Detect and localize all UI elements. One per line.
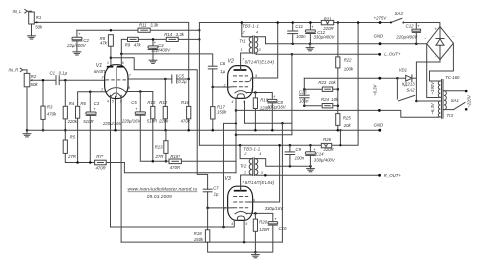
node C3 top — [89, 91, 92, 94]
V3 g1 lead — [228, 207, 234, 209]
tube V1 6N3P envelope — [105, 65, 128, 99]
connector IN_R — [20, 68, 23, 71]
svg-text:C14: C14 — [316, 152, 324, 157]
capacitor C5 coupling — [171, 75, 173, 83]
wire V3 g2 to bottom rail — [253, 145, 280, 202]
resistor R18 — [205, 230, 209, 242]
wire V3 pin5 stub — [243, 221, 245, 243]
svg-text:VD1: VD1 — [399, 67, 408, 72]
svg-text:100n: 100n — [299, 99, 309, 104]
svg-text:+: + — [434, 27, 437, 32]
switch SA3 — [391, 18, 402, 22]
svg-text:4: 4 — [107, 100, 109, 104]
svg-text:R7*: R7* — [96, 154, 103, 159]
svg-text:150k: 150k — [217, 110, 227, 115]
wire L_OUT heater reference vertical — [291, 54, 293, 134]
ground bus — [27, 129, 380, 131]
svg-text:1: 1 — [244, 171, 246, 175]
svg-text:470R: 470R — [96, 165, 106, 170]
svg-text:C12: C12 — [406, 24, 414, 29]
wire R19 bottom to ground bus — [254, 109, 256, 131]
wire R22 stub — [337, 23, 339, 57]
svg-text:220k: 220k — [67, 119, 78, 124]
svg-text:2: 2 — [100, 87, 103, 91]
resistor R4 — [63, 106, 67, 119]
wire V1 heater mid to ground bus — [115, 96, 117, 130]
svg-text:2: 2 — [223, 206, 226, 210]
wire C8 bottom to ground bus — [271, 103, 273, 130]
V3 g2 lead — [248, 201, 252, 203]
svg-text:C5: C5 — [178, 73, 184, 78]
resistor R6 — [76, 106, 80, 118]
wire heater drop right — [281, 123, 283, 242]
potentiometer R1 — [29, 12, 35, 24]
svg-text:220R: 220R — [323, 147, 334, 152]
svg-text:R10: R10 — [147, 100, 155, 105]
wire R18 bottom on heater line — [207, 241, 209, 243]
resistor R15* — [169, 159, 181, 164]
resistor R23 — [322, 87, 332, 91]
wire C10 bottom and bottom ground line — [208, 225, 273, 252]
wire R20 stub — [254, 213, 256, 219]
capacitor C3 electrolytic — [86, 112, 96, 114]
connector IN_L — [25, 9, 28, 13]
wire heater bottom line — [121, 241, 282, 243]
wire ground bus to bottom rail stub — [339, 130, 341, 145]
wire C7 to V3 grid — [208, 192, 228, 208]
svg-text:220R: 220R — [322, 26, 333, 31]
wire R13 from ground bus — [165, 130, 167, 141]
svg-text:4: 4 — [259, 152, 261, 156]
wire cathode1 line — [78, 92, 106, 107]
capacitor C1 — [55, 76, 57, 85]
capacitor C7 coupling to V3 — [203, 188, 212, 190]
wire R4 vertical — [64, 80, 66, 106]
wire heater line H1 to transformer — [236, 110, 437, 117]
svg-text:470k: 470k — [181, 118, 191, 123]
ground C2 — [73, 51, 81, 53]
wire V1 heater B down — [120, 95, 122, 242]
svg-text:09.03.2009: 09.03.2009 — [147, 194, 172, 199]
wire R12 drop — [164, 79, 166, 106]
svg-text:50k: 50k — [31, 82, 39, 87]
svg-text:100k: 100k — [344, 66, 354, 71]
capacitor C2 electrolytic — [72, 37, 82, 39]
V1 heater — [111, 93, 122, 97]
svg-text:6Н3П: 6Н3П — [94, 69, 106, 74]
resistor R24 — [322, 104, 333, 108]
wire grid1 line from R2 wiper through C1 — [34, 79, 57, 81]
node R4/R5 ground — [64, 129, 67, 132]
switch SA1 — [444, 109, 454, 111]
node heater jog — [235, 122, 237, 124]
wire C3 vertical — [89, 92, 91, 112]
wire hum line left channel — [181, 160, 236, 162]
svg-text:120R: 120R — [259, 227, 269, 232]
bridge rectifier — [427, 27, 454, 60]
wire R6 bottom crossing bus to bias line — [77, 118, 79, 162]
svg-text:R21: R21 — [324, 16, 332, 21]
svg-text:4: 4 — [232, 100, 234, 104]
ground C4 — [149, 59, 157, 61]
V3 grid rows — [233, 196, 248, 207]
svg-text:R11 3,3k: R11 3,3k — [139, 23, 159, 28]
svg-text:9: 9 — [255, 74, 257, 78]
svg-text:SA1: SA1 — [451, 98, 460, 103]
nodes on bottom rail — [239, 144, 242, 147]
ground under C12 — [309, 44, 311, 48]
V3 anode plate — [234, 190, 247, 192]
wire V2 g2 up to rail — [253, 23, 278, 79]
svg-text:R4: R4 — [69, 101, 75, 106]
wire R20 bottom to ground — [254, 231, 256, 252]
wire Tr2 pin1 to V3 anode — [241, 175, 251, 191]
svg-text:R9 47k: R9 47k — [125, 42, 142, 47]
node anode2 — [120, 53, 123, 56]
resistor R25 — [336, 114, 340, 126]
svg-text:КД213: КД213 — [402, 81, 415, 86]
wire Tr2 pin2 to rail — [240, 145, 251, 158]
svg-text:4: 4 — [256, 30, 258, 34]
wire anode2 to coupling C6 — [121, 54, 212, 66]
winding 190V — [438, 81, 440, 97]
node R11 line junction — [198, 29, 200, 31]
wire Tr1 pin4 to GND rail — [256, 37, 265, 44]
ground R1 — [28, 35, 36, 37]
wire nfb +6.3 line — [304, 77, 397, 79]
capacitor C13 — [300, 94, 310, 96]
svg-text:1µ: 1µ — [220, 69, 225, 74]
wire R3 vertical — [42, 80, 44, 106]
wire R22 down through R23 R24 to R25 — [337, 68, 339, 114]
svg-text:3: 3 — [251, 87, 253, 91]
svg-text:R24 10k: R24 10k — [321, 97, 339, 102]
wire R5 bottom to bias line — [65, 153, 94, 162]
winding 220V primary — [444, 91, 446, 110]
wire bottom channel supply rail — [199, 23, 358, 146]
svg-text:3: 3 — [261, 171, 263, 175]
resistor R21 on rail — [321, 20, 333, 24]
wire R4 bottom to ground bus — [64, 119, 66, 140]
svg-text:R3: R3 — [47, 104, 53, 109]
resistor R11 — [138, 28, 150, 32]
pin labels V2 — [223, 57, 258, 104]
svg-text:220µ/16V: 220µ/16V — [102, 121, 123, 126]
transformer Tr2 TVZ-1-1 — [249, 158, 258, 176]
svg-text:7: 7 — [129, 73, 131, 77]
V3 heater — [237, 216, 244, 220]
V2 heater — [237, 94, 244, 98]
svg-text:220k: 220k — [158, 118, 169, 123]
svg-text:0,1µ: 0,1µ — [59, 70, 68, 75]
pin labels V3 — [223, 181, 255, 226]
node +275V terminal — [379, 21, 382, 24]
wire heater bus A — [245, 101, 292, 123]
diode VD1 — [406, 75, 412, 81]
svg-text:Tr2: Tr2 — [240, 164, 247, 169]
svg-text:22µ/400V: 22µ/400V — [151, 48, 172, 53]
capacitor C11 — [288, 30, 298, 32]
svg-text:C6: C6 — [220, 61, 226, 66]
wire 220V top — [444, 90, 465, 92]
wire +275V rail — [199, 22, 391, 24]
capacitor C5b cathode electrolytic — [135, 112, 145, 114]
svg-text:C13: C13 — [299, 90, 307, 95]
node anode1 — [110, 56, 113, 59]
wire C4 stub and ground — [152, 39, 154, 46]
resistor R9 — [128, 37, 139, 41]
wire C11 vertical — [292, 23, 294, 32]
svg-text:R25: R25 — [343, 116, 351, 121]
svg-text:C1: C1 — [50, 70, 56, 75]
capacitor C12b reservoir — [415, 23, 417, 30]
svg-text:R2: R2 — [31, 74, 37, 79]
svg-text:510R: 510R — [83, 119, 93, 124]
V1 center line — [115, 67, 117, 97]
svg-text:5: 5 — [243, 100, 245, 104]
tube V3 EL84 envelope — [228, 186, 253, 220]
ground bus left symbol — [26, 130, 28, 134]
resistor R7* — [95, 160, 107, 165]
transformer TC-160 core — [441, 80, 443, 119]
svg-text:8: 8 — [128, 86, 130, 90]
svg-text:IN_L: IN_L — [13, 9, 23, 14]
svg-text:R18: R18 — [194, 231, 202, 236]
wire anode2 stub into tube — [120, 54, 122, 66]
node V3 grid — [206, 207, 209, 210]
wire L_OUT line — [256, 53, 380, 55]
capacitor C4 electrolytic — [148, 46, 158, 48]
svg-text:R_OUT+: R_OUT+ — [384, 173, 402, 178]
svg-text:R22: R22 — [344, 58, 352, 63]
transformer Tr1 TVZ-1-1 — [249, 36, 258, 54]
svg-text:330µ/400V: 330µ/400V — [314, 158, 336, 163]
V1 grid dashes — [106, 79, 126, 81]
svg-text:5: 5 — [112, 100, 114, 104]
svg-text:~190V: ~190V — [430, 81, 435, 95]
wire R8 to anode1 — [110, 46, 112, 65]
ground bottom V3 — [254, 252, 256, 255]
capacitor C10 electrolytic — [268, 222, 278, 224]
wire Tr1 pin1 to V2 anode — [241, 53, 251, 70]
wire bridge right corner to 190V top tap — [430, 43, 454, 81]
svg-text:6П14П(EL84): 6П14П(EL84) — [245, 180, 275, 185]
node R8 top — [110, 29, 113, 32]
wire C3 bottom to bias line — [89, 115, 91, 162]
V2 anode plate — [234, 69, 247, 71]
wire 190V bottom tap to gnd — [427, 44, 438, 98]
capacitor C9 — [285, 151, 295, 153]
wire C12 filter vertical — [309, 23, 311, 30]
resistor R22 — [336, 57, 340, 68]
svg-text:SA2: SA2 — [406, 87, 415, 92]
node R4 top — [64, 79, 67, 82]
wire 6.3V top tap — [416, 100, 437, 102]
wire C2 bottom to ground sym — [76, 41, 78, 52]
node R14 line junction — [198, 38, 200, 40]
svg-text:3: 3 — [102, 76, 104, 80]
svg-text:R26: R26 — [323, 137, 331, 142]
resistor R19 — [253, 98, 257, 109]
wire grid2/C5 line from tube pin7 — [128, 78, 172, 80]
V2 cathode — [235, 91, 247, 93]
wire R19 stub — [254, 93, 256, 98]
svg-text:47k: 47k — [100, 41, 108, 46]
svg-text:470k: 470k — [47, 111, 57, 116]
resistor R5 — [63, 140, 67, 153]
wire input L to C5 node (top long wire) — [36, 22, 189, 79]
svg-text:C10: C10 — [279, 226, 287, 231]
wire R_OUT line from Tr2 pin3 — [256, 174, 380, 176]
svg-text:22µ/400V: 22µ/400V — [66, 43, 87, 48]
svg-text:V3: V3 — [224, 176, 230, 182]
svg-text:2: 2 — [243, 152, 246, 156]
svg-text:Tr1: Tr1 — [239, 39, 246, 44]
tube V2 EL84 envelope — [228, 66, 253, 99]
wire C2 drop — [76, 30, 78, 37]
V2 grid rows — [233, 76, 248, 87]
svg-text:1µ: 1µ — [214, 192, 219, 197]
node heater H1 junction — [235, 109, 238, 112]
svg-text:330µ/16V: 330µ/16V — [267, 104, 287, 109]
wire R9/R14 supply line — [121, 39, 199, 54]
svg-text:R14 3,3k: R14 3,3k — [164, 32, 184, 37]
wire Tr1 pin2 to rail — [242, 23, 251, 37]
svg-text:5: 5 — [245, 222, 247, 226]
node VD1 left — [396, 77, 399, 80]
svg-text:www.IvanAudioMaster.narod.ru: www.IvanAudioMaster.narod.ru — [128, 187, 198, 193]
svg-text:4: 4 — [231, 222, 233, 226]
svg-text:C7: C7 — [213, 186, 219, 191]
svg-text:3: 3 — [259, 48, 261, 52]
V3 cathode — [235, 212, 247, 214]
svg-text:220µ/16V: 220µ/16V — [121, 118, 142, 123]
wire V1 heater A down and right to V3 pin4 — [111, 95, 235, 227]
resistor R10 — [151, 106, 155, 118]
wire R2 input — [26, 72, 28, 75]
wire R16 drop — [188, 79, 190, 106]
svg-text:20k: 20k — [343, 123, 352, 128]
wire R24 line — [304, 105, 322, 107]
bridge minus path to VD1 — [416, 60, 440, 101]
svg-text:R5: R5 — [70, 134, 76, 139]
switch SA2 — [396, 78, 398, 99]
ground under C14 — [310, 166, 312, 168]
svg-text:470R: 470R — [170, 165, 180, 170]
node stub bottom — [339, 144, 341, 146]
svg-text:R19: R19 — [260, 97, 268, 102]
svg-text:~6,3V: ~6,3V — [430, 102, 435, 114]
svg-text:TC-160: TC-160 — [445, 75, 460, 80]
wire R23 line — [304, 88, 322, 90]
svg-text:GND: GND — [374, 123, 384, 128]
svg-text:220µ/400V: 220µ/400V — [395, 35, 418, 40]
svg-text:330µ/400V: 330µ/400V — [314, 34, 336, 39]
svg-text:R12: R12 — [159, 100, 167, 105]
svg-text:R6: R6 — [80, 101, 86, 106]
wire C6 coupling to V2 grid — [213, 69, 229, 87]
resistor R16 — [187, 106, 191, 118]
svg-text:ТВЗ-1-1: ТВЗ-1-1 — [243, 146, 260, 151]
svg-text:R23 10k: R23 10k — [318, 80, 336, 85]
svg-text:9: 9 — [253, 198, 255, 202]
svg-text:7: 7 — [242, 181, 244, 185]
svg-text:330µ/16V: 330µ/16V — [265, 206, 285, 211]
svg-text:100n: 100n — [295, 155, 305, 160]
svg-text:R16: R16 — [181, 100, 189, 105]
svg-text:9: 9 — [120, 100, 122, 104]
wire heater jog down to V3 pin4 line — [224, 123, 237, 227]
wire cathode2 line — [128, 92, 153, 107]
svg-text:C11: C11 — [295, 24, 303, 29]
svg-text:ТВЗ-1-1: ТВЗ-1-1 — [242, 24, 259, 29]
svg-text:R13: R13 — [155, 145, 163, 150]
svg-text:7: 7 — [242, 57, 244, 61]
svg-text:V2: V2 — [228, 58, 234, 64]
svg-text:C3: C3 — [94, 101, 100, 106]
wire bias line to hum line right — [106, 163, 236, 173]
wire R2 bottom to ground — [26, 87, 28, 130]
svg-text:1: 1 — [241, 48, 243, 52]
capacitor C6 coupling to V2 — [208, 65, 217, 67]
wire Tr1 pin3 start of L_OUT — [255, 53, 257, 54]
wire VD1 anode lead — [397, 77, 405, 79]
V2 g2 lead — [248, 78, 253, 82]
wire R10 bottom to nfb line — [152, 119, 154, 162]
wire Tr2 pin4 to C9/C14 ground — [256, 159, 310, 167]
svg-text:GND: GND — [374, 34, 384, 39]
wire R11/C2/R8 supply line — [77, 29, 199, 31]
wire C5 cathode cap vertical — [139, 92, 141, 112]
resistor R14 — [166, 37, 178, 41]
svg-text:6: 6 — [122, 61, 124, 65]
svg-text:1: 1 — [107, 61, 109, 65]
resistor R17 — [211, 107, 215, 119]
svg-text:R15*: R15* — [170, 154, 180, 159]
svg-text:C9: C9 — [296, 147, 302, 152]
resistor R3 — [41, 106, 45, 119]
svg-text:27R: 27R — [155, 154, 164, 159]
winding 6.3V — [438, 101, 440, 117]
svg-text:27R: 27R — [67, 154, 76, 159]
svg-text:R1: R1 — [36, 15, 42, 20]
svg-text:~6,3V: ~6,3V — [373, 84, 378, 96]
svg-text:6П14П(EL84): 6П14П(EL84) — [245, 59, 275, 64]
capacitor C12 filter electrolytic — [305, 30, 315, 32]
svg-text:0,1µ: 0,1µ — [178, 79, 187, 84]
svg-text:SA3: SA3 — [395, 11, 404, 16]
svg-text:50k: 50k — [35, 25, 43, 30]
capacitor C14 electrolytic — [305, 152, 315, 154]
pin labels V1 — [100, 61, 131, 104]
svg-text:~220V: ~220V — [467, 94, 472, 108]
svg-text:3: 3 — [251, 210, 253, 214]
wire heater bus C — [236, 134, 292, 136]
node heater bus C junction — [235, 133, 238, 136]
svg-text:150k: 150k — [194, 237, 204, 242]
resistor R26 on bottom rail — [321, 143, 331, 147]
V2 g1 lead — [227, 86, 233, 88]
resistor R8 — [108, 35, 113, 47]
wire V2 cathode — [253, 93, 273, 100]
resistor R12 — [163, 106, 167, 118]
node stub top — [339, 129, 341, 131]
svg-text:2: 2 — [242, 30, 245, 34]
svg-text:510R: 510R — [147, 118, 157, 123]
capacitor C8 electrolytic — [268, 99, 277, 101]
svg-text:L_OUT+: L_OUT+ — [384, 51, 401, 56]
svg-text:IN_R: IN_R — [9, 67, 19, 72]
